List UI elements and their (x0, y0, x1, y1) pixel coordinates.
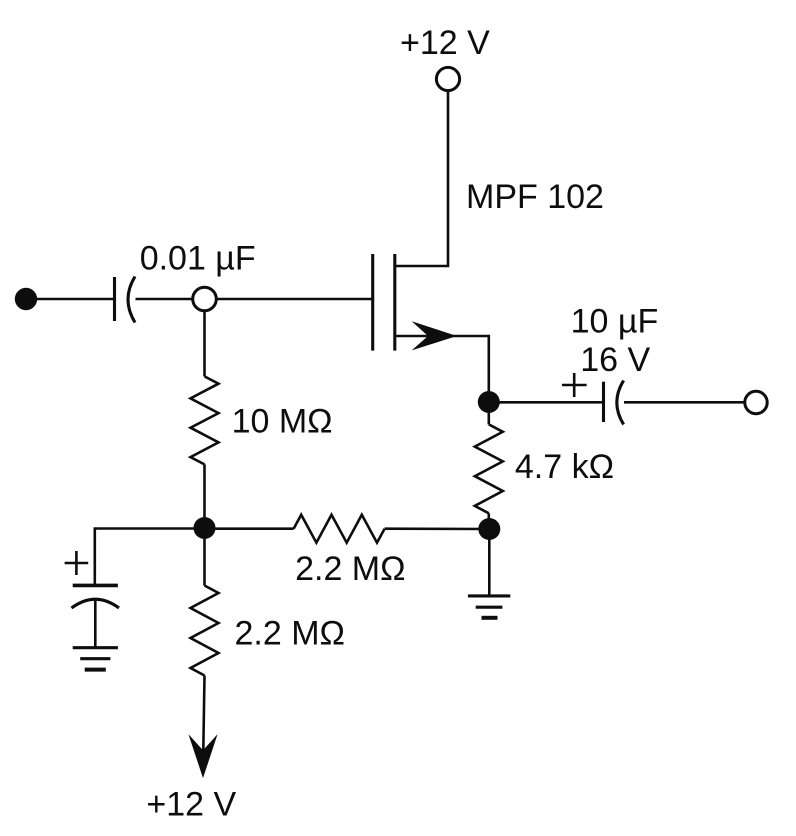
label + polarity of C3 (65, 551, 89, 575)
svg-text:10 MΩ: 10 MΩ (232, 403, 333, 441)
wire drain to +12V terminal (395, 92, 448, 267)
wire node A down to R4 (203, 528, 206, 586)
svg-text:+12 V: +12 V (400, 24, 490, 62)
label + polarity of C2 (562, 373, 587, 397)
input terminal (filled dot) (15, 288, 37, 310)
capacitor C2 right curved plate (617, 381, 624, 425)
wire C2 to output terminal (624, 401, 744, 404)
wire source lead (395, 336, 489, 402)
wire R3 to node B (487, 513, 490, 529)
label 10 uF (571, 303, 659, 341)
output terminal (open circle) (745, 391, 767, 413)
node source output (junction dot) (478, 391, 500, 413)
svg-text:10 µF: 10 µF (571, 303, 659, 341)
svg-text:2.2 MΩ: 2.2 MΩ (235, 615, 345, 653)
wire node B to ground G2 (488, 529, 491, 596)
label 0.01 uF (140, 239, 256, 277)
svg-text:2.2 MΩ: 2.2 MΩ (295, 550, 405, 588)
label 10 Mohm (232, 403, 333, 441)
svg-text:+12 V: +12 V (146, 786, 236, 824)
transistor Q1 MPF 102 (JFET) gate bar (371, 254, 374, 351)
resistor R3 4.7 kohm (475, 424, 503, 513)
resistor R4 2.2 Mohm (vertical) (191, 586, 219, 676)
wire node A to bypass capacitor branch (95, 529, 205, 585)
wire R4 to +12V arrow (203, 676, 205, 771)
transistor Q1 channel bar (393, 254, 396, 351)
capacitor C1 0.01 uF left plate (113, 277, 116, 321)
svg-text:4.7 kΩ: 4.7 kΩ (515, 448, 614, 486)
ground G2 (468, 596, 510, 618)
node A (junction dot) (194, 517, 216, 539)
capacitor C1 right curved plate (128, 277, 135, 323)
arrow to +12V supply (188, 734, 217, 778)
label 4.7 kohm (515, 448, 614, 486)
resistor R2 2.2 Mohm (horizontal) (294, 515, 385, 543)
label 2.2 Mohm (feedback) (295, 550, 405, 588)
wire gate node down to R1 (203, 312, 206, 377)
wire C3 to ground (94, 600, 97, 648)
wire R2 to node B (385, 527, 490, 530)
source arrowhead of Q1 (412, 321, 457, 350)
wire C1 to gate node (136, 298, 193, 301)
node gate (open circle) (193, 287, 217, 311)
wire input to capacitor C1 (34, 298, 114, 301)
node B (junction dot) (478, 518, 500, 540)
capacitor C3 curved bottom plate (72, 599, 120, 608)
wire input node to gate (217, 298, 372, 301)
svg-text:MPF 102: MPF 102 (466, 178, 604, 216)
label 2.2 Mohm (lower) (235, 615, 345, 653)
label +12 V (bottom) (146, 786, 236, 824)
capacitor C3 electrolytic top plate (73, 584, 118, 588)
resistor R1 10 Mohm (191, 376, 219, 464)
wire source node to R3 (487, 402, 490, 424)
label MPF 102 (466, 178, 604, 216)
ground G1 (73, 648, 118, 670)
wire node A to R2 (205, 527, 294, 530)
svg-text:0.01 µF: 0.01 µF (140, 239, 256, 277)
capacitor C2 10 uF left plate (602, 382, 605, 422)
wire source node to C2 (489, 401, 603, 404)
label +12 V (top) (400, 24, 490, 62)
label 16 V (580, 341, 650, 379)
terminal +12V top (open circle) (436, 67, 459, 90)
wire R1 to node A (203, 464, 206, 528)
svg-text:16 V: 16 V (580, 341, 650, 379)
